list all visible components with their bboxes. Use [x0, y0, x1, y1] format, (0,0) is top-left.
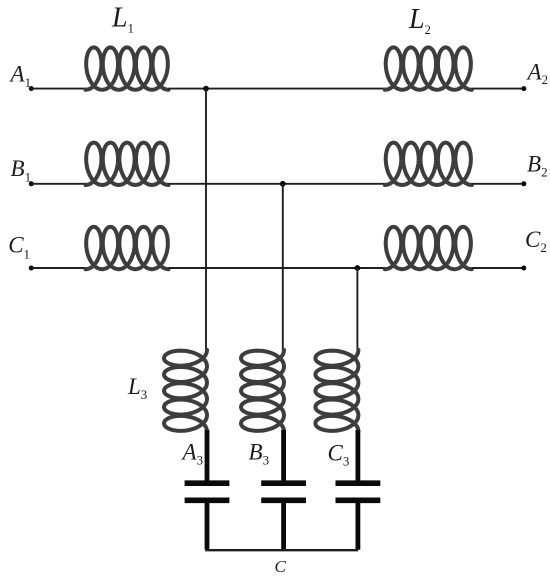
capacitor B3-C bottom plate [261, 497, 306, 503]
inductor L1 B-phase coil [86, 143, 169, 185]
wire B3 coil to capacitor (thick) [281, 430, 286, 481]
inductor L2 A-phase coil [385, 47, 472, 89]
wire [169, 267, 386, 269]
capacitor A3-C bottom plate [185, 497, 230, 503]
wire [472, 88, 524, 90]
svg-text:C: C [275, 557, 287, 576]
wire A-phase drop [205, 89, 207, 352]
wire C-phase drop [356, 268, 358, 352]
node B1 terminal [29, 181, 34, 186]
inductor L1 C-phase coil [86, 227, 169, 269]
wire [169, 88, 386, 90]
capacitor B3-C top plate [261, 480, 306, 486]
node A1 terminal [29, 86, 34, 91]
wire capacitor to neutral bus (thick) [281, 503, 286, 550]
wire [31, 88, 86, 90]
node B junction [280, 181, 286, 187]
wire capacitor to neutral bus (thick) [355, 503, 360, 550]
inductor L1 A-phase coil [86, 47, 169, 89]
capacitor C3-C bottom plate [336, 497, 381, 503]
wire C3 coil to capacitor (thick) [355, 430, 360, 481]
inductor L3 A-phase coil [164, 350, 207, 432]
wire B-phase drop [282, 184, 284, 352]
wire [472, 267, 524, 269]
node A junction [203, 86, 209, 92]
inductor L2 C-phase coil [385, 227, 472, 269]
wire neutral bus C [205, 549, 358, 551]
wire capacitor to neutral bus (thick) [205, 503, 210, 550]
node C junction [355, 265, 361, 271]
inductor L3 C-phase coil [315, 350, 358, 432]
wire [31, 183, 86, 185]
node C1 terminal [29, 266, 34, 271]
inductor L2 B-phase coil [385, 143, 472, 185]
wire [31, 267, 86, 269]
wire A3 coil to capacitor (thick) [205, 430, 210, 481]
node A2 terminal [521, 86, 526, 91]
capacitor C3-C top plate [336, 480, 381, 486]
inductor L3 B-phase coil [241, 350, 284, 432]
node C2 terminal [521, 266, 526, 271]
wire [472, 183, 524, 185]
capacitor A3-C top plate [185, 480, 230, 486]
node B2 terminal [521, 181, 526, 186]
wire [169, 183, 386, 185]
